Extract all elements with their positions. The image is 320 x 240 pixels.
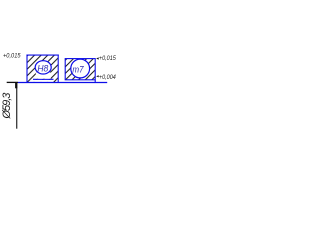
svg-text:+0,015: +0,015 xyxy=(99,55,116,62)
svg-text:+0,015: +0,015 xyxy=(3,53,21,60)
svg-text:+0,004: +0,004 xyxy=(99,74,116,81)
svg-text:Ø59,3: Ø59,3 xyxy=(1,92,13,120)
svg-text:H8: H8 xyxy=(37,64,49,74)
svg-text:m7: m7 xyxy=(72,64,84,75)
